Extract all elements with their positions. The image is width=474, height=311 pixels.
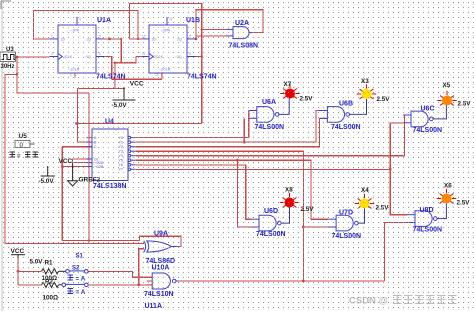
bus Y1 row <box>135 111 319 143</box>
bus Y7 row <box>135 168 390 170</box>
wire U1B Q up loop to U2A <box>196 10 263 39</box>
wire U7D output to LED X4 <box>358 208 364 223</box>
wire U6B output to LED X3 <box>350 99 367 115</box>
clock source U3 <box>0 47 16 70</box>
page border left <box>1 0 3 311</box>
label key=space for U5 <box>10 152 39 158</box>
wire clock left drop to U9A input1 <box>5 74 144 243</box>
LED X7 red <box>280 84 300 99</box>
xor gate U9A 74LS86D <box>144 241 178 252</box>
wire U10A output row <box>179 280 385 282</box>
nand gate U7D 74LS00N <box>328 215 358 231</box>
wire Y7 up to U6C input2 <box>390 123 403 170</box>
LED X5 orange <box>437 91 457 106</box>
wire U1A notQ down <box>104 57 112 80</box>
switch S1 bottom row <box>62 283 88 287</box>
wire U1B D row <box>129 38 141 40</box>
wire C net vertical <box>61 147 63 241</box>
wire clock tap down <box>17 57 89 93</box>
wire R2 lead left <box>18 284 42 286</box>
wire C input row <box>62 146 92 148</box>
ground GREF2 <box>68 163 78 186</box>
label key=A for S1 <box>68 288 74 294</box>
bus Y4 row <box>135 115 411 156</box>
wire U6D output to LED X8 <box>281 207 289 223</box>
wire U6C output to LED X5 <box>433 105 446 119</box>
wire U8D output to LED X6 <box>437 203 446 218</box>
VCC symbol near U5 <box>41 166 56 176</box>
wire S1 to U9A input2 <box>139 249 144 285</box>
wire U1B toggle loop <box>129 4 201 124</box>
nand gate U6A 74LS00N <box>249 107 279 123</box>
wire G2B row <box>62 166 92 168</box>
bus Y3 row <box>135 150 303 152</box>
label key=A for S2 <box>68 275 74 281</box>
wire G1 row <box>73 158 92 160</box>
nand gate U6D 74LS00N <box>251 215 281 231</box>
wire U1A CLR stub <box>74 73 76 78</box>
bus Y5 row <box>135 160 328 219</box>
wire Y7 down to U8D input1 <box>390 169 407 214</box>
wire U1B CLR stub joins row <box>161 72 163 79</box>
wire R2 to S1 <box>59 284 63 286</box>
nand gate U6B 74LS00N <box>319 107 349 123</box>
switch U5 (digital constant) <box>15 133 35 149</box>
nand gate U8D 74LS00N <box>407 211 437 227</box>
AND gate U2A 74LS08N <box>226 27 253 39</box>
wire right riser to U8D input2 <box>384 223 409 282</box>
wire R1 lead left <box>18 270 42 272</box>
bus Y2 row <box>135 118 327 146</box>
LED X3 yellow <box>357 84 377 99</box>
wire G2A row <box>73 162 92 164</box>
wire row to VCC stub <box>77 87 124 89</box>
wire U6A output to LED X7 <box>279 98 289 114</box>
LED X8 red <box>280 193 300 208</box>
D flip-flop U1A <box>50 17 104 77</box>
LED X6 orange <box>437 189 457 204</box>
nand gate U6C 74LS00N <box>403 111 433 127</box>
watermark CSDN <box>349 296 457 307</box>
wire R1 to S2 <box>59 270 66 272</box>
bus Y6 row <box>135 165 251 219</box>
VCC symbol under flip-flops <box>113 88 136 100</box>
wire S2 row to U10A input1 <box>87 271 152 277</box>
switch S2 top row <box>66 270 88 274</box>
wire S1 row <box>87 284 152 286</box>
wire U1A toggle loop <box>34 11 138 39</box>
corner clip marks top-left <box>1 1 11 9</box>
wire U1A Q to U1B CLK dip <box>121 39 141 63</box>
wire U2A input1 <box>202 28 226 30</box>
VCC symbol bottom left <box>11 255 25 259</box>
wire row to U1B CLR <box>112 78 162 80</box>
decoder U4 74LS138N <box>86 129 128 181</box>
wire Y1 branch to U6A input2 <box>243 118 245 142</box>
wire VCC to R1 R2 <box>17 259 19 285</box>
D flip-flop U1B <box>142 17 196 77</box>
wire VCC-G vertical <box>72 159 74 163</box>
wire bottom U row to U9A output <box>62 236 181 246</box>
wire vertical to B input <box>76 88 78 142</box>
wire Y5 branch to U6D input2 <box>237 160 251 227</box>
wire mid vertical to bottom <box>88 93 90 241</box>
wire U1A Q node <box>104 38 121 40</box>
nand3 gate U10A 74LS10N <box>147 273 179 289</box>
wire B net from U1B notQ <box>77 123 201 125</box>
wire dip left extension down <box>115 63 121 89</box>
wire U2A input2 <box>195 36 197 39</box>
resistor R2 100ohm <box>42 282 59 287</box>
resistor R1 100ohm <box>42 269 59 274</box>
wire U1B notQ stub join <box>196 56 202 58</box>
bus Y0 row <box>135 111 248 138</box>
wire U7D input2 row <box>303 226 330 228</box>
LED X4 yellow <box>355 194 375 209</box>
wire Y3 vertical to U7D input2 <box>302 151 304 281</box>
wire U3 output to U1A CLK <box>16 56 50 58</box>
